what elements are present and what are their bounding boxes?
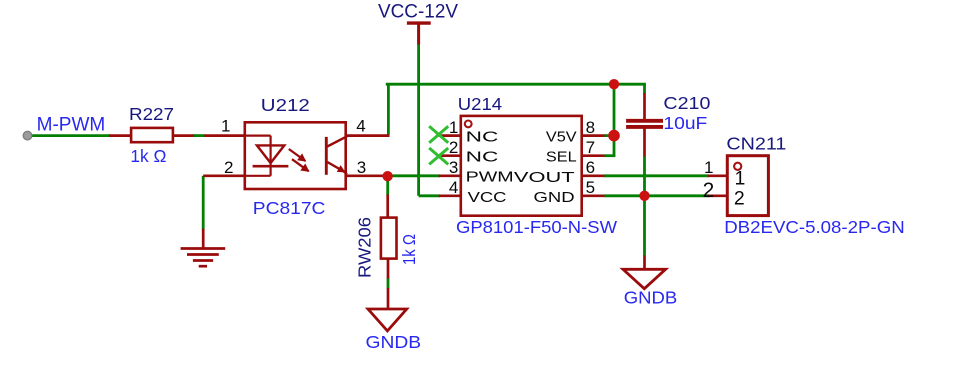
- svg-text:VCC: VCC: [468, 190, 507, 206]
- svg-text:3: 3: [357, 158, 366, 177]
- svg-text:10uF: 10uF: [663, 113, 707, 133]
- svg-text:GNDB: GNDB: [366, 332, 422, 352]
- svg-text:1k Ω: 1k Ω: [130, 146, 166, 166]
- svg-text:NC: NC: [466, 130, 499, 146]
- svg-text:4: 4: [449, 178, 458, 197]
- svg-text:M-PWM: M-PWM: [37, 113, 106, 135]
- svg-text:PWM: PWM: [466, 169, 514, 185]
- svg-text:3: 3: [449, 158, 458, 177]
- svg-text:1: 1: [221, 116, 230, 135]
- svg-text:GP8101-F50-N-SW: GP8101-F50-N-SW: [456, 217, 618, 237]
- svg-text:2: 2: [734, 187, 745, 209]
- svg-text:VCC-12V: VCC-12V: [378, 2, 458, 23]
- svg-text:R227: R227: [129, 104, 174, 124]
- svg-text:NC: NC: [466, 150, 499, 166]
- svg-text:4: 4: [356, 117, 365, 136]
- svg-text:6: 6: [586, 158, 595, 177]
- svg-text:1: 1: [449, 118, 458, 137]
- svg-text:U212: U212: [261, 95, 310, 115]
- svg-text:GND: GND: [534, 190, 575, 206]
- svg-text:U214: U214: [458, 94, 503, 114]
- svg-text:CN211: CN211: [726, 134, 786, 154]
- svg-text:2: 2: [224, 158, 233, 177]
- svg-text:2: 2: [449, 138, 458, 157]
- svg-text:C210: C210: [663, 93, 710, 113]
- svg-text:RW206: RW206: [355, 217, 375, 278]
- svg-text:1: 1: [704, 158, 713, 177]
- svg-text:1: 1: [735, 168, 746, 190]
- svg-text:DB2EVC-5.08-2P-GN: DB2EVC-5.08-2P-GN: [724, 217, 905, 237]
- svg-text:1k Ω: 1k Ω: [399, 234, 419, 265]
- svg-text:2: 2: [703, 179, 715, 202]
- svg-text:8: 8: [586, 118, 595, 137]
- svg-text:V5V: V5V: [546, 130, 577, 146]
- svg-text:PC817C: PC817C: [253, 198, 326, 218]
- svg-text:VOUT: VOUT: [514, 170, 575, 186]
- svg-text:SEL: SEL: [546, 150, 577, 166]
- svg-text:GNDB: GNDB: [624, 288, 678, 308]
- svg-text:7: 7: [586, 138, 595, 157]
- svg-text:5: 5: [586, 178, 595, 197]
